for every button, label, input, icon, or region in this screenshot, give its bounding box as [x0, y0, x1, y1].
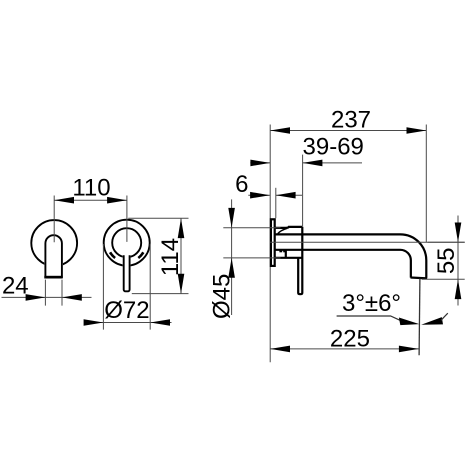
- angle arc left arrow: [399, 318, 420, 326]
- center axis extension line: [270, 241, 465, 243]
- dimension 225 line: [270, 348, 419, 350]
- dimension 114 extension lines: [128, 218, 188, 293]
- dimension D45 line: [231, 199, 233, 315]
- dimension 110 arrows: [54, 197, 74, 204]
- dimension 237 extension line right: [425, 125, 427, 243]
- side lever handle: [298, 227, 302, 294]
- spout tube bottom: [275, 250, 410, 278]
- body fillet curve: [278, 228, 287, 233]
- spout tube top: [275, 234, 426, 277]
- svg-text:114: 114: [157, 238, 184, 276]
- dimension 24 extension lines: [45, 280, 62, 306]
- svg-text:Ø45: Ø45: [208, 274, 235, 319]
- right escutcheon inner circle: [112, 228, 141, 257]
- svg-text:6: 6: [235, 171, 248, 198]
- dimension 225 arrows: [270, 346, 290, 353]
- svg-text:225: 225: [330, 326, 370, 353]
- angle label underline leader: [337, 316, 403, 321]
- dimension 110 line: [54, 199, 127, 201]
- dimension 39-69 lines: [250, 162, 362, 164]
- valve body top: [275, 227, 302, 228]
- angle arc right tail: [441, 313, 448, 320]
- left escutcheon circle (handle rosette): [31, 220, 77, 266]
- body hatch mark: [279, 250, 282, 252]
- right lever bar: [123, 255, 131, 292]
- lever grip end band: [44, 276, 62, 279]
- dimension D72 extension lines: [103, 244, 150, 330]
- svg-text:24: 24: [2, 273, 29, 300]
- dimension 6 arrows: [250, 192, 270, 199]
- dimension D45 extension lines: [223, 228, 280, 258]
- dimension D72 line: [84, 322, 172, 324]
- dimension 6 lines: [248, 194, 302, 196]
- spout tip end: [411, 276, 428, 279]
- shine dash lower-right: [138, 252, 143, 258]
- dimension 237 arrows: [270, 127, 290, 134]
- dimension D45 arrows: [228, 208, 235, 228]
- dimension 24 line: [2, 296, 92, 298]
- dimension 110 extension lines: [54, 196, 127, 243]
- spout tip tilted extension line: [418, 279, 421, 356]
- dimension 55 extension lines: [422, 242, 465, 279]
- svg-text:110: 110: [72, 175, 110, 202]
- angle arc right arrow: [421, 317, 443, 325]
- dimension 114 line: [180, 218, 182, 293]
- body step vertical: [285, 250, 287, 258]
- svg-text:55: 55: [433, 247, 460, 274]
- wall plate side view: [271, 219, 275, 266]
- dimension 39-69 extension line: [302, 155, 304, 227]
- lever handle front view: [44, 234, 63, 279]
- wall extension line: [269, 125, 271, 363]
- dimension 39-69 arrows: [250, 160, 270, 167]
- svg-text:39-69: 39-69: [303, 134, 364, 161]
- svg-text:Ø72: Ø72: [104, 297, 149, 324]
- right escutcheon outer circle: [104, 220, 150, 266]
- valve body bottom: [275, 257, 302, 259]
- dimension 6 extension line: [275, 188, 277, 218]
- shine dash lower-left: [110, 252, 115, 258]
- dimension D72 arrows: [84, 319, 104, 326]
- dimension 24 arrows: [26, 294, 46, 301]
- dimension 55 arrows: [455, 223, 462, 243]
- svg-text:3°±6°: 3°±6°: [342, 290, 401, 317]
- dimension 55 line: [457, 216, 459, 306]
- dimension 114 arrows: [178, 218, 185, 238]
- dimension 237 line: [270, 130, 426, 132]
- svg-text:237: 237: [331, 106, 371, 133]
